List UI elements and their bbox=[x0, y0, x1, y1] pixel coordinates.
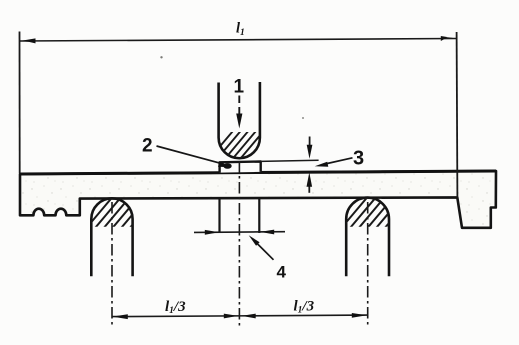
dimension l1 line bbox=[20, 39, 456, 42]
dimension 3 upper arrow bbox=[309, 137, 311, 148]
plate top edge bbox=[20, 171, 496, 174]
load arrow shaft bbox=[238, 96, 240, 115]
main center line bbox=[238, 161, 240, 327]
dimension l1 arrow left bbox=[20, 38, 36, 43]
load arrowhead bbox=[236, 114, 242, 129]
loading nose hatching bbox=[206, 125, 280, 177]
svg-text:l1/3: l1/3 bbox=[165, 299, 186, 316]
support left bbox=[91, 198, 132, 276]
dimension 4 arrow right bbox=[260, 230, 274, 235]
dimension l1 arrow right bbox=[441, 36, 457, 41]
dimension 3 extension line bbox=[261, 160, 319, 161]
support right hatching bbox=[338, 194, 412, 244]
dimension l1/3 arrow far left bbox=[112, 314, 128, 319]
svg-text:4: 4 bbox=[277, 263, 287, 282]
svg-text:2: 2 bbox=[142, 136, 153, 157]
label 3 leader bbox=[325, 158, 353, 164]
dimension l1/3 line bbox=[112, 315, 368, 317]
loading nose bbox=[219, 82, 260, 158]
label 4 leader bbox=[257, 243, 274, 260]
dimension 3 lower arrow bbox=[308, 183, 310, 193]
support left hatching bbox=[83, 194, 157, 244]
dimension l1 extension line right bbox=[456, 32, 459, 198]
svg-text:3: 3 bbox=[353, 148, 364, 170]
dimension l1/3 arrow far right bbox=[352, 313, 367, 318]
dimension l1 extension line left bbox=[19, 32, 21, 174]
dimension 4 arrow left bbox=[205, 230, 219, 235]
specimen plate bbox=[20, 171, 496, 228]
svg-text:l1/3: l1/3 bbox=[294, 299, 315, 316]
pad side extension lines below plate bbox=[218, 198, 220, 233]
dimension 4 line bbox=[194, 231, 285, 234]
svg-text:1: 1 bbox=[234, 77, 245, 98]
pad item 2 bbox=[220, 162, 261, 173]
support right center line bbox=[367, 202, 369, 326]
dimension l1/3 arrow center left bbox=[224, 314, 238, 319]
support right bbox=[346, 198, 389, 277]
dimension l1/3 arrow center right bbox=[242, 314, 256, 319]
label 2 leader bbox=[157, 146, 223, 164]
support left center line bbox=[111, 202, 113, 326]
